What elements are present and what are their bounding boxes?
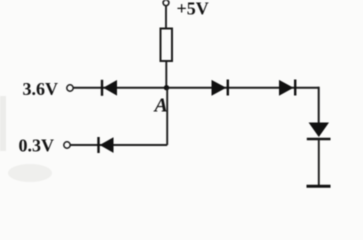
diode D2 (cathode left) bbox=[99, 137, 114, 153]
diode D3 (anode left, cathode right) bbox=[212, 80, 228, 96]
scan smudge bottom-left bbox=[8, 164, 52, 182]
svg-text:A: A bbox=[153, 95, 168, 117]
svg-text:0.3V: 0.3V bbox=[19, 136, 55, 156]
node A junction dot bbox=[164, 85, 169, 90]
ground bar (cut at image bottom) bbox=[307, 185, 331, 188]
svg-text:+5V: +5V bbox=[177, 0, 209, 18]
wire 0.3V rail bbox=[70, 144, 167, 146]
terminal 3.6V bbox=[67, 85, 73, 91]
wire node A down to 0.3V rail bbox=[166, 88, 168, 145]
diode D1 (cathode left) bbox=[102, 80, 117, 96]
wire main horizontal 3.6V rail bbox=[73, 87, 319, 89]
wire terminal to resistor bbox=[165, 6, 167, 29]
wire right corner down bbox=[318, 87, 320, 123]
diode D5 (pointing down) bbox=[307, 123, 331, 140]
resistor R1 bbox=[161, 29, 173, 62]
wire resistor to node A bbox=[165, 61, 167, 88]
wire D5 to bottom bbox=[318, 139, 320, 186]
diode D4 (anode left, cathode right) bbox=[279, 80, 295, 96]
svg-text:3.6V: 3.6V bbox=[23, 79, 59, 99]
scan smudge left edge bbox=[0, 96, 6, 151]
terminal 0.3V bbox=[64, 142, 70, 148]
terminal +5V bbox=[163, 0, 169, 6]
